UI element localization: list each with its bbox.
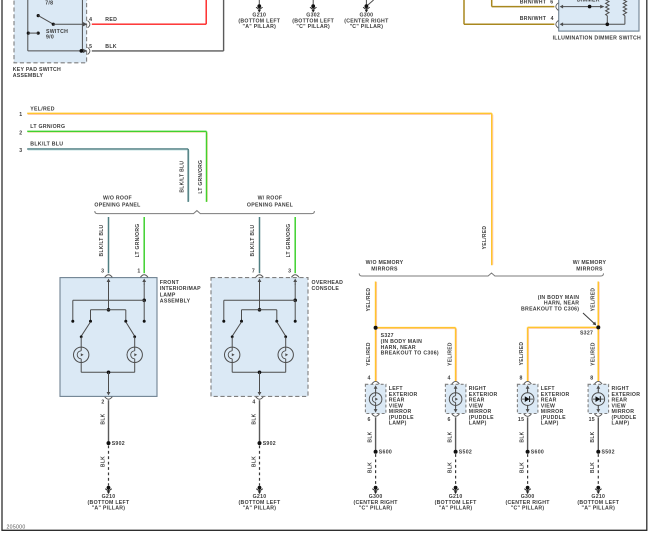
svg-text:"A" PILLAR): "A" PILLAR) [243,506,277,512]
svg-text:RED: RED [105,17,117,23]
svg-text:"A" PILLAR): "A" PILLAR) [581,506,615,512]
svg-text:LT GRN/ORG: LT GRN/ORG [286,224,292,258]
svg-text:S600: S600 [379,450,392,456]
wire BRN/WHT to dimmer pin 6 [491,0,493,7]
wire BLK dashed to ground [597,454,599,486]
svg-text:OPENING PANEL: OPENING PANEL [247,203,294,209]
svg-text:"A" PILLAR): "A" PILLAR) [92,506,126,512]
wire BRN/WHT to dimmer pin 4 [463,0,465,24]
map feed rail [242,309,277,311]
right exterior mirror (w/ memory) [588,384,609,413]
splice S502 [596,450,600,454]
left lamp [74,347,89,362]
svg-text:"A" PILLAR): "A" PILLAR) [242,24,276,30]
ground G300 top [344,4,389,30]
svg-text:BLK: BLK [590,462,596,473]
dome feed rail [224,299,295,301]
splice S902 [258,441,262,445]
svg-text:8: 8 [590,376,593,382]
overhead console [211,278,308,397]
svg-text:S502: S502 [602,450,615,456]
wire BLK to S600 [375,417,377,451]
svg-text:LT GRN/ORG: LT GRN/ORG [30,124,65,130]
wire BLK to S502 [597,417,599,451]
wire BLK/LT BLU drop [187,149,189,202]
left exterior mirror (w/ memory) [517,384,538,413]
svg-text:CONSOLE: CONSOLE [312,286,340,292]
svg-text:LAMP): LAMP) [389,421,407,427]
right lamp [278,347,293,362]
wire BLK to S600 [527,417,529,451]
svg-text:LAMP): LAMP) [541,421,559,427]
connector pin 1 [140,275,148,278]
wire BLK dashed to ground [259,446,261,486]
svg-text:BLK: BLK [251,456,257,467]
svg-text:205000: 205000 [7,524,26,530]
svg-text:W/O MEMORY: W/O MEMORY [366,260,404,266]
wire BLK to S902 [108,400,110,443]
svg-text:S600: S600 [531,450,544,456]
svg-text:MIRRORS: MIRRORS [371,267,398,273]
svg-text:BRN/WHT: BRN/WHT [520,0,547,5]
svg-text:4: 4 [448,376,451,382]
svg-text:BLK: BLK [100,456,106,467]
svg-text:S902: S902 [263,441,276,447]
svg-text:S502: S502 [459,450,472,456]
wire BLK dashed to ground [455,454,457,486]
roof option brace [95,211,315,214]
wire BLK dashed to ground [527,454,529,486]
ground G300 m1 [353,486,398,512]
wire YEL/RED W/ branch drop [597,282,599,328]
left switch blade [81,322,90,336]
svg-text:BLK: BLK [590,431,596,442]
left switch blade [232,322,241,336]
svg-text:YEL/RED: YEL/RED [590,342,596,366]
svg-text:FRONT: FRONT [160,280,180,286]
svg-text:YEL/RED: YEL/RED [519,342,525,366]
wire LT GRN/ORG stub to overhead console pin 3 [294,217,296,273]
splice S600 [526,450,530,454]
wire YEL/RED riser [491,113,493,265]
page borders [1,0,3,530]
right lamp [127,347,142,362]
wire to ground G300 top [365,0,367,6]
svg-text:INTERIOR/MAP: INTERIOR/MAP [160,286,201,292]
svg-text:BLK: BLK [519,431,525,442]
svg-text:BLK: BLK [105,44,117,50]
wire LT GRN/ORG stub to front lamp pin 1 [143,217,145,273]
svg-text:W/ MEMORY: W/ MEMORY [573,260,607,266]
lamp feed wires [108,284,110,310]
svg-text:LAMP): LAMP) [612,421,630,427]
svg-text:2: 2 [101,399,104,405]
right switch blade [126,322,135,336]
connector pin 2 [108,389,110,394]
puddle lamp led [592,393,605,406]
connector pin 3 [291,275,299,278]
connector pin 4 [259,389,261,394]
wire to ground G210 top [258,0,260,6]
svg-text:YEL/RED: YEL/RED [366,288,372,312]
svg-text:YEL/RED: YEL/RED [447,342,453,366]
svg-text:3: 3 [19,148,22,154]
puddle lamp bulb [369,393,382,406]
svg-text:9/0: 9/0 [46,35,54,41]
svg-text:1: 1 [137,269,140,275]
svg-text:S902: S902 [112,441,125,447]
svg-text:BLK: BLK [519,462,525,473]
ground G210 [88,486,130,512]
svg-text:4: 4 [368,376,371,382]
svg-text:4: 4 [252,399,255,405]
svg-text:"C" PILLAR): "C" PILLAR) [350,24,384,30]
lamp ground rail [80,363,82,373]
illumination dimmer switch box [559,0,639,31]
svg-text:6: 6 [368,417,371,423]
svg-text:OVERHEAD: OVERHEAD [312,280,344,286]
svg-text:YEL/RED: YEL/RED [590,288,596,312]
left exterior mirror (w/o memory) [365,384,386,413]
wire YEL/RED S327 down to right mirror (w/ memory) [597,327,599,381]
dimmer resistor 1 [606,0,609,16]
wire BLK/LT BLU stub to front lamp pin 3 [108,217,110,273]
svg-text:BLK: BLK [447,431,453,442]
svg-text:7: 7 [252,269,255,275]
svg-text:BLK: BLK [367,462,373,473]
dimmer pin 6 connector [556,3,559,11]
svg-text:5: 5 [89,44,92,50]
svg-text:BLK: BLK [367,431,373,442]
svg-text:YEL/RED: YEL/RED [30,107,54,113]
svg-text:"A" PILLAR): "A" PILLAR) [439,506,473,512]
svg-text:YEL/RED: YEL/RED [482,226,488,250]
keypad inner housing [27,0,29,51]
ground G210 [239,486,281,512]
switch 7/8 [37,14,40,17]
connector pin 7 [256,275,264,278]
wire LT GRN/ORG drop [206,131,208,202]
puddle lamp led [521,393,534,406]
ground G210 top [238,4,280,30]
svg-text:BREAKOUT TO C306): BREAKOUT TO C306) [521,307,579,313]
right switch blade [277,322,286,336]
svg-text:4: 4 [89,17,92,23]
ground G300 m3 [505,486,550,512]
svg-text:ASSEMBLY: ASSEMBLY [160,299,191,305]
wire BLK to S502 [455,417,457,451]
svg-text:BLK/LT BLU: BLK/LT BLU [180,161,186,193]
svg-text:6: 6 [550,0,553,5]
svg-text:BLK/LT BLU: BLK/LT BLU [30,142,63,148]
svg-text:"C" PILLAR): "C" PILLAR) [359,506,393,512]
svg-text:"C" PILLAR): "C" PILLAR) [511,506,545,512]
svg-text:"C" PILLAR): "C" PILLAR) [296,24,330,30]
memory mirrors option brace [359,273,603,276]
svg-text:ASSEMBLY: ASSEMBLY [13,73,44,79]
svg-text:LAMP: LAMP [160,292,176,298]
keypad pin 5 connector [83,49,87,53]
svg-text:6: 6 [448,417,451,423]
svg-text:W/O ROOF: W/O ROOF [103,196,132,202]
front interior/map lamp assembly [60,278,157,397]
svg-text:7/8: 7/8 [45,0,53,6]
svg-text:2: 2 [19,130,22,136]
splice S600 [374,450,378,454]
keypad switch assembly box [14,0,87,63]
svg-text:BLK: BLK [100,413,106,424]
connector pin 3 [105,275,113,278]
wire YEL/RED W/O branch drop [375,282,377,328]
svg-text:8: 8 [520,376,523,382]
wire BLK dashed to ground [108,446,110,486]
wire BLK/LT BLU stub to overhead console pin 7 [259,217,261,273]
puddle lamp bulb [449,393,462,406]
right exterior mirror (w/o memory) [445,384,466,413]
wire YEL/RED S327 to left mirror (w/ memory) [528,326,599,328]
left lamp [225,347,240,362]
svg-text:LT GRN/ORG: LT GRN/ORG [135,224,141,258]
svg-text:LAMP): LAMP) [469,421,487,427]
dimmer wiper wire [561,6,603,8]
keypad pin 4 connector [83,22,87,26]
ground G210 m4 [577,486,619,512]
svg-text:15: 15 [589,417,595,423]
wire to ground G302 top [312,0,314,6]
wire RED from keypad pin 4 [92,23,206,25]
svg-text:15: 15 [518,417,524,423]
switch 9/0 contacts [27,31,30,34]
dimmer resistor 2 [623,0,626,16]
map feed rail [91,309,126,311]
dimmer pin 4 connector [556,21,559,29]
svg-text:S327: S327 [580,331,593,337]
svg-text:BLK/LT BLU: BLK/LT BLU [99,224,105,256]
splice S502 [454,450,458,454]
svg-text:BLK: BLK [447,462,453,473]
wire BLK dashed to ground [375,454,377,486]
svg-text:DIMMER: DIMMER [577,0,600,4]
wire BLK from keypad pin 5 [92,50,224,52]
svg-text:W/ ROOF: W/ ROOF [258,196,283,202]
dome feed rail [73,299,144,301]
svg-text:BLK/LT BLU: BLK/LT BLU [250,224,256,256]
wire YEL/RED S327 to left mirror [375,328,377,382]
svg-text:3: 3 [288,269,291,275]
svg-text:LT GRN/ORG: LT GRN/ORG [198,160,204,194]
lamp ground rail [231,363,233,373]
dimmer bottom rail [561,23,625,25]
svg-text:BRN/WHT: BRN/WHT [520,16,547,22]
svg-text:ILLUMINATION DIMMER SWITCH: ILLUMINATION DIMMER SWITCH [553,35,641,41]
svg-text:4: 4 [551,16,554,22]
wire BLK to S902 [259,400,261,443]
splice S902 [107,441,111,445]
svg-text:3: 3 [101,269,104,275]
lamp feed wires [259,284,261,310]
ground G302 top [292,4,334,30]
svg-text:YEL/RED: YEL/RED [366,342,372,366]
wire YEL/RED S327 to right mirror [376,327,456,329]
ground G210 m2 [435,486,477,512]
junction on keypad ground rail [80,49,84,53]
svg-text:1: 1 [19,112,22,118]
svg-text:MIRRORS: MIRRORS [576,267,603,273]
svg-text:BLK: BLK [251,413,257,424]
svg-text:OPENING PANEL: OPENING PANEL [94,203,141,209]
svg-text:BREAKOUT TO C306): BREAKOUT TO C306) [381,351,439,357]
